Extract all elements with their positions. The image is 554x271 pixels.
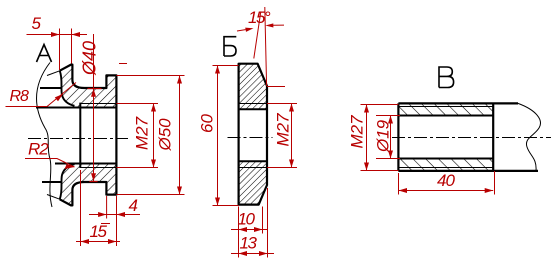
dimension M27 (view B) xyxy=(267,104,297,168)
view A thread major lines (thin) xyxy=(80,104,116,168)
svg-text:Ø40: Ø40 xyxy=(80,41,100,76)
view V hole bottom xyxy=(492,103,494,170)
dimension 10 (view B) xyxy=(231,207,268,258)
view B bore lines (thick) xyxy=(239,109,267,161)
svg-text:М27: М27 xyxy=(348,115,367,149)
view A weld joint curve top xyxy=(60,71,75,106)
dimension 15 (view A thread length) xyxy=(76,170,120,246)
view V label xyxy=(439,67,454,88)
view B centerline xyxy=(228,137,273,139)
dimension 13 (view B) xyxy=(231,188,274,258)
view A pipe thin edges xyxy=(47,71,60,199)
svg-text:5: 5 xyxy=(32,14,42,33)
svg-text:15°: 15° xyxy=(248,8,271,27)
view B outline xyxy=(239,64,267,205)
view V bore lines (thick) xyxy=(398,116,493,159)
svg-text:R8: R8 xyxy=(10,88,30,105)
svg-text:М27: М27 xyxy=(274,113,293,147)
view A hatch bottom region xyxy=(60,164,117,206)
dimension 60 (view B) xyxy=(198,66,239,206)
dimension 4 (view A) xyxy=(89,196,140,246)
view B hatch bottom xyxy=(239,161,267,204)
dimension 5 (weld collar) xyxy=(27,14,88,70)
svg-text:60: 60 xyxy=(198,114,217,133)
view A thread end line xyxy=(79,103,81,168)
view V hatch bottom band xyxy=(398,159,493,171)
dimension M27 (view V) xyxy=(348,105,399,171)
stray extension tick (view A top right) xyxy=(119,63,127,65)
view V centerline xyxy=(392,137,551,139)
dimension 15 deg (view B chamfer angle) xyxy=(237,7,285,87)
radius leader R8 xyxy=(6,83,77,107)
svg-text:10: 10 xyxy=(238,210,256,229)
svg-text:Ø19: Ø19 xyxy=(374,119,393,153)
view A weld joint curve bottom xyxy=(60,164,75,199)
svg-text:4: 4 xyxy=(129,196,138,215)
radius leader R2 xyxy=(25,140,75,170)
view B thread major lines (thin) xyxy=(239,104,267,168)
dimension D50 (view A) xyxy=(116,76,184,195)
svg-text:R2: R2 xyxy=(28,140,49,159)
view V outline xyxy=(398,103,538,170)
svg-text:Ø50: Ø50 xyxy=(156,118,175,152)
view A centerline xyxy=(28,138,128,140)
view B hatch top xyxy=(239,64,267,109)
dimension D40 xyxy=(80,34,102,182)
view V hatch top band xyxy=(398,103,493,115)
dimension M27 (view A) xyxy=(116,104,158,168)
view V break line xyxy=(518,103,540,170)
view A hatch top region xyxy=(60,65,117,108)
svg-text:13: 13 xyxy=(240,234,258,253)
dimension 40 (view V) xyxy=(399,171,495,195)
svg-text:М27: М27 xyxy=(133,116,152,150)
view B label xyxy=(224,37,236,56)
view A break line (thin S-curve) xyxy=(37,63,52,208)
view A label xyxy=(37,45,52,63)
view A bore lines (thick) xyxy=(36,108,116,164)
svg-text:15: 15 xyxy=(90,222,108,241)
view V thread major lines (thin) xyxy=(398,107,493,168)
dimension D19 (view V) xyxy=(374,116,401,159)
svg-text:40: 40 xyxy=(437,171,455,190)
view A outline (thick) xyxy=(40,65,116,206)
